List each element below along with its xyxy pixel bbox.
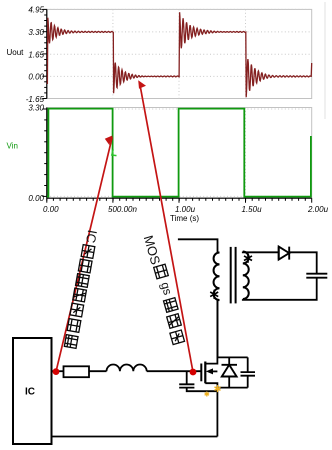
svg-text:Vin: Vin [7,142,18,151]
node dot IC output [53,368,60,375]
red annotation arrow 1 (IC drive waveform) [56,137,112,371]
snubber bottom wire (source) [217,387,247,389]
wire inductor to MOSFET gate [147,370,202,372]
diode D1 (across MOSFET) [222,357,238,387]
node dot MOSFET gate [190,369,197,376]
MOSFET Q1 body arrow [209,370,217,372]
plot grid and frames [47,9,312,98]
plot window outer border [324,2,326,119]
svg-text:1.65: 1.65 [28,50,44,59]
capacitor C1 (gate-source) lead [187,371,218,391]
MOSFET Q1 gate bar [200,364,202,382]
svg-text:Uout: Uout [7,48,25,57]
waveform Vin (green square wave) [47,109,311,197]
pseudo hanzi glyph strokes for rotated labels [81,245,95,259]
svg-text:Time (s): Time (s) [170,214,199,223]
svg-text:0.00: 0.00 [43,205,59,214]
wire IC output to resistor [52,370,64,372]
red annotation arrow 2 (MOS gs waveform) [140,83,193,372]
transformer T1 primary winding [218,253,220,301]
svg-text:IC: IC [83,229,100,244]
transformer dot mark primary [213,290,215,299]
svg-text:1.00u: 1.00u [175,205,196,214]
small green marker on Vin falling edge [112,150,117,156]
secondary top wire to diode [243,251,279,254]
bottom return rail [52,436,218,438]
transformer T1 primary bottom lead [217,300,219,357]
axes and tick marks [46,9,48,98]
capacitor C1 plates [179,384,194,387]
transformer dot mark secondary [247,254,249,263]
resistor R1 (gate drive) [64,366,90,377]
svg-text:500.00n: 500.00n [108,205,137,214]
svg-text:4.95: 4.95 [28,5,44,14]
svg-text:2.00u: 2.00u [307,205,329,214]
svg-text:0.00: 0.00 [28,194,44,203]
svg-text:3.30: 3.30 [28,103,44,112]
IC box U1 [13,338,52,444]
wire diode to output cap [289,252,317,273]
transformer T1 secondary winding [243,252,249,300]
MOSFET Q1 source lead [205,383,217,436]
MOSFET Q1 drain lead [205,300,217,364]
diode D2 (output rectifier) [279,247,290,260]
inductor L1 (gate drive) [107,365,147,372]
svg-text:gs: gs [158,280,175,296]
capacitor C2 (snubber) [247,357,249,387]
svg-text:3.30: 3.30 [28,28,44,37]
waveform Uout (dark red with ringing) [47,12,311,97]
yellow highlight marks at source node [217,385,219,392]
svg-text:MOS: MOS [141,234,164,267]
transformer T1 primary top lead [178,239,218,252]
svg-text:IC: IC [25,387,35,398]
svg-text:1.50u: 1.50u [242,205,263,214]
wire resistor to inductor [89,370,107,372]
transformer T1 core [230,247,232,304]
capacitor C3 (output) [306,274,327,278]
output loop bottom wire [243,278,317,300]
svg-text:0.00: 0.00 [28,72,44,81]
snubber top wire (drain) [217,356,247,358]
MOSFET Q1 channel bar [204,362,206,384]
